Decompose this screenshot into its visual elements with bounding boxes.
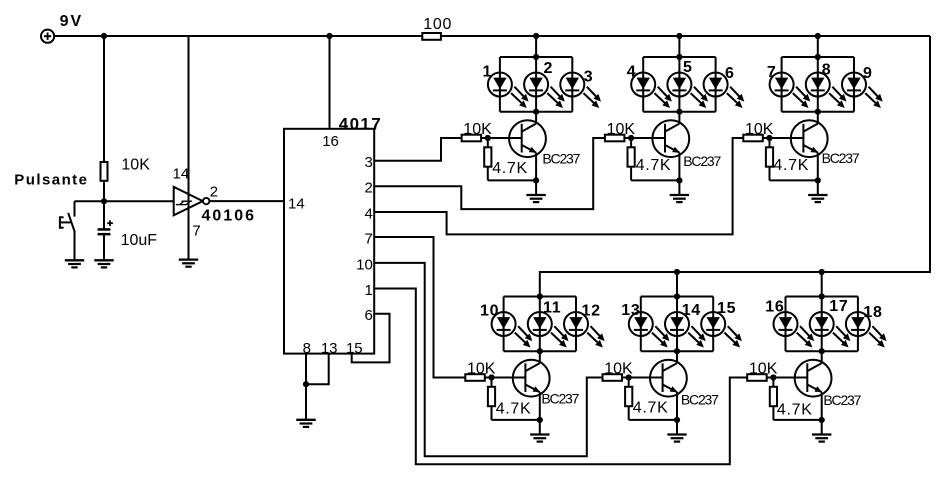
svg-text:40106: 40106 <box>202 208 257 225</box>
svg-text:3: 3 <box>584 69 594 86</box>
svg-text:7: 7 <box>192 223 200 240</box>
svg-text:15: 15 <box>346 340 363 357</box>
svg-text:4.7K: 4.7K <box>773 157 809 174</box>
svg-text:10: 10 <box>480 303 499 320</box>
svg-text:2: 2 <box>364 180 372 197</box>
svg-text:BC237: BC237 <box>822 150 860 166</box>
svg-text:10K: 10K <box>604 361 633 378</box>
svg-text:BC237: BC237 <box>823 392 861 408</box>
svg-text:4: 4 <box>364 205 372 222</box>
svg-text:18: 18 <box>863 304 882 321</box>
svg-text:1: 1 <box>364 282 372 299</box>
svg-text:10K: 10K <box>121 157 150 174</box>
svg-text:BC237: BC237 <box>541 390 579 406</box>
svg-text:100: 100 <box>423 16 452 33</box>
svg-text:2: 2 <box>544 60 554 77</box>
svg-text:4.7K: 4.7K <box>496 401 532 418</box>
svg-text:4.7K: 4.7K <box>777 402 813 419</box>
svg-text:5: 5 <box>683 59 693 76</box>
svg-text:16: 16 <box>322 133 339 150</box>
svg-text:14: 14 <box>173 166 190 183</box>
svg-text:4.7K: 4.7K <box>636 157 672 174</box>
svg-text:9V: 9V <box>60 13 84 30</box>
svg-text:9: 9 <box>863 65 873 82</box>
svg-text:10: 10 <box>356 256 373 273</box>
svg-text:12: 12 <box>582 303 601 320</box>
svg-text:1: 1 <box>483 64 493 81</box>
svg-text:13: 13 <box>621 302 640 319</box>
svg-text:BC237: BC237 <box>683 153 721 169</box>
svg-text:7: 7 <box>767 64 777 81</box>
svg-text:3: 3 <box>364 154 372 171</box>
svg-text:Pulsante: Pulsante <box>14 172 88 189</box>
svg-text:10K: 10K <box>745 121 774 138</box>
svg-text:17: 17 <box>829 298 848 315</box>
svg-text:8: 8 <box>822 61 832 78</box>
svg-text:BC237: BC237 <box>681 391 719 407</box>
svg-text:14: 14 <box>682 302 701 319</box>
svg-text:10uF: 10uF <box>121 232 158 249</box>
svg-text:10K: 10K <box>463 121 492 138</box>
svg-text:6: 6 <box>364 307 372 324</box>
svg-text:10K: 10K <box>607 121 636 138</box>
svg-text:4: 4 <box>627 64 637 81</box>
svg-text:11: 11 <box>543 299 561 316</box>
svg-text:16: 16 <box>765 299 784 316</box>
svg-text:14: 14 <box>288 196 305 213</box>
svg-text:15: 15 <box>717 300 736 317</box>
svg-text:4017: 4017 <box>339 115 382 134</box>
svg-text:7: 7 <box>364 230 372 247</box>
svg-text:4.7K: 4.7K <box>633 400 669 417</box>
svg-text:2: 2 <box>210 183 218 200</box>
svg-text:6: 6 <box>725 65 735 82</box>
svg-text:4.7K: 4.7K <box>492 160 528 177</box>
svg-text:10K: 10K <box>467 361 496 378</box>
svg-text:10K: 10K <box>749 361 778 378</box>
svg-text:BC237: BC237 <box>542 150 580 166</box>
